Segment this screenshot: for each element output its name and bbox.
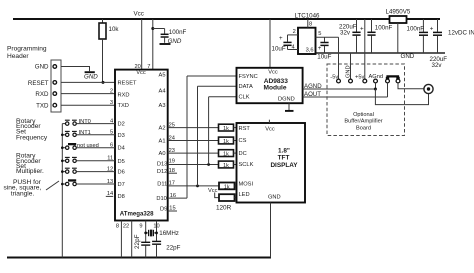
node: common junctions xyxy=(61,134,64,137)
svg-text:A4: A4 xyxy=(159,88,166,94)
svg-text:AGND: AGND xyxy=(304,83,322,90)
wire: -5v drop xyxy=(338,37,340,79)
svg-text:RST: RST xyxy=(239,126,251,132)
terminal GND xyxy=(349,79,353,83)
svg-text:32v: 32v xyxy=(432,62,443,69)
wire: AOUT riser to terminal A xyxy=(387,83,389,97)
svg-text:AGnd: AGnd xyxy=(369,74,384,80)
svg-text:3: 3 xyxy=(110,100,113,106)
wire: A0 to DC xyxy=(168,152,219,154)
node: reset junction xyxy=(102,81,105,84)
connector J2 output jack xyxy=(424,84,433,93)
svg-text:+5v: +5v xyxy=(355,74,364,80)
pin RXD xyxy=(53,92,57,96)
svg-text:TFT: TFT xyxy=(278,155,290,162)
switch SW6 push (D7) xyxy=(62,183,65,185)
svg-text:TXD: TXD xyxy=(36,103,49,110)
svg-text:11: 11 xyxy=(107,156,113,162)
svg-text:1k: 1k xyxy=(224,184,230,190)
svg-text:-5v: -5v xyxy=(330,75,338,81)
wire: pin2 xyxy=(288,34,299,36)
switch SW3 not used (D4) xyxy=(62,147,65,149)
svg-text:Buffer/Amplifier: Buffer/Amplifier xyxy=(344,119,382,125)
svg-text:D4: D4 xyxy=(118,146,125,152)
svg-text:3,6: 3,6 xyxy=(306,47,314,53)
svg-text:6: 6 xyxy=(110,143,113,149)
svg-text:INT1: INT1 xyxy=(79,130,91,136)
svg-text:DC: DC xyxy=(239,151,247,157)
svg-text:4: 4 xyxy=(110,118,113,124)
switch SW4 (D5) xyxy=(62,160,65,162)
svg-text:100nF: 100nF xyxy=(407,26,425,33)
svg-text:13: 13 xyxy=(107,179,113,185)
wire: AOUT xyxy=(303,96,388,98)
svg-text:4: 4 xyxy=(292,45,295,51)
wire: pin10 xyxy=(156,221,158,242)
wire: D13 to SCLK xyxy=(168,164,219,166)
svg-text:7: 7 xyxy=(147,64,150,70)
svg-text:2: 2 xyxy=(293,29,296,35)
svg-text:SCLK: SCLK xyxy=(239,162,254,168)
wire: A2 to RST xyxy=(168,127,219,129)
capacitor C7 100nF xyxy=(371,19,373,32)
node: CLK junction xyxy=(207,163,210,166)
wire: D10 to FSYNC riser xyxy=(168,197,187,199)
wire: DATA horizontal xyxy=(198,85,237,87)
svg-text:ATmega328: ATmega328 xyxy=(120,210,154,217)
power GND rail xyxy=(316,52,446,54)
svg-text:10: 10 xyxy=(153,223,159,229)
svg-text:A1: A1 xyxy=(159,139,166,145)
svg-text:12vDC IN: 12vDC IN xyxy=(448,30,474,37)
wire: AGnd to AGND net xyxy=(375,83,377,89)
svg-text:1k: 1k xyxy=(223,163,229,169)
svg-text:triangle.: triangle. xyxy=(11,190,35,197)
svg-text:CLK: CLK xyxy=(239,95,250,101)
svg-text:Vcc: Vcc xyxy=(136,70,146,76)
svg-text:100nF: 100nF xyxy=(375,25,393,32)
svg-text:GND: GND xyxy=(168,38,182,45)
pin TXD xyxy=(53,103,57,107)
wire: Vcc feed AD9833 xyxy=(269,19,271,68)
svg-text:RESET: RESET xyxy=(118,80,137,86)
wire: TXD xyxy=(61,104,115,106)
wire: D11 to MOSI xyxy=(168,185,219,187)
resistor R5 1k xyxy=(219,161,234,168)
svg-text:Multiplier.: Multiplier. xyxy=(16,168,44,175)
svg-text:AOUT: AOUT xyxy=(304,91,321,98)
svg-text:D13: D13 xyxy=(157,162,167,168)
svg-text:Module: Module xyxy=(263,85,286,92)
svg-text:RESET: RESET xyxy=(28,80,49,87)
svg-text:DATA: DATA xyxy=(239,84,254,90)
annotation line xyxy=(46,181,59,190)
svg-text:D2: D2 xyxy=(118,122,125,128)
svg-text:RXD: RXD xyxy=(35,91,49,98)
wire: TFT Vcc stub xyxy=(268,120,270,123)
svg-text:DGND: DGND xyxy=(278,96,295,102)
svg-text:LTC1046: LTC1046 xyxy=(295,13,321,20)
svg-text:D3: D3 xyxy=(118,133,125,139)
node: xtal pin10 xyxy=(155,232,158,235)
wire: AGND down to jack sleeve xyxy=(375,89,428,105)
resistor R7 120R xyxy=(219,194,235,201)
wire: A1 to CS xyxy=(168,140,219,142)
svg-text:+: + xyxy=(318,45,322,52)
svg-text:1k: 1k xyxy=(223,152,229,158)
svg-text:GND: GND xyxy=(84,73,98,80)
svg-text:Vcc: Vcc xyxy=(268,70,278,76)
svg-text:D9: D9 xyxy=(160,206,167,212)
svg-text:A3: A3 xyxy=(159,103,166,109)
resistor R4 1k xyxy=(219,150,234,157)
svg-text:12: 12 xyxy=(107,166,113,172)
svg-text:+: + xyxy=(360,26,364,33)
wire: +5v feed xyxy=(364,19,366,79)
wire: pin8 xyxy=(120,221,122,258)
svg-text:L4950V5: L4950V5 xyxy=(386,9,411,16)
svg-text:120R: 120R xyxy=(216,204,232,211)
svg-text:20: 20 xyxy=(134,64,140,70)
svg-text:Vcc: Vcc xyxy=(265,126,275,132)
svg-text:LED: LED xyxy=(239,192,250,198)
capacitor C4 10uF xyxy=(287,35,289,42)
switch SW2 INT1 (D3) xyxy=(62,134,65,136)
capacitor C1 100nF xyxy=(153,28,165,30)
svg-text:MOSI: MOSI xyxy=(239,182,254,188)
svg-text:Vcc: Vcc xyxy=(208,188,218,194)
svg-text:A0: A0 xyxy=(159,151,166,157)
node: DATA junction xyxy=(196,185,199,188)
jumper link xyxy=(388,76,399,79)
wire: RXD xyxy=(61,93,115,95)
capacitor C8 100nF xyxy=(422,19,424,32)
wire: RESET xyxy=(61,81,115,83)
svg-text:DISPLAY: DISPLAY xyxy=(270,162,298,169)
switch SW5 (D6) xyxy=(62,171,65,173)
connector J1 programming header xyxy=(51,60,61,112)
wire: CLK vertical xyxy=(208,97,210,165)
svg-text:8: 8 xyxy=(309,22,312,28)
wire: CLK horizontal xyxy=(209,96,237,98)
capacitor C3 22pF xyxy=(152,240,161,242)
MCU U1 ATmega328 xyxy=(115,70,168,221)
switch SW1 INT0 (D2) xyxy=(62,123,65,125)
capacitor C5 10uF xyxy=(324,37,326,42)
wire: pin4 xyxy=(288,49,299,51)
svg-text:8: 8 xyxy=(116,223,119,229)
svg-text:GND: GND xyxy=(401,53,415,60)
IC U4 LTC1046 xyxy=(298,28,316,54)
svg-text:D11: D11 xyxy=(157,181,167,187)
svg-text:10k: 10k xyxy=(109,26,120,33)
wire: switch common to ground xyxy=(61,124,63,258)
wire: pin5 xyxy=(316,36,339,38)
svg-text:Optional: Optional xyxy=(353,112,374,118)
svg-text:5: 5 xyxy=(318,31,321,37)
wire: header GND xyxy=(61,67,90,72)
ground symbol (DGND) xyxy=(288,103,290,110)
node: pin7 vcc junction xyxy=(151,27,154,30)
wire: Vcc pin20 xyxy=(141,19,143,70)
wire: gnd stub xyxy=(350,53,352,79)
svg-text:10uF: 10uF xyxy=(317,53,331,60)
display U3 1.8 TFT xyxy=(237,123,306,203)
ground symbol (C1) xyxy=(160,43,171,45)
svg-text:D10: D10 xyxy=(156,196,166,202)
svg-text:22pF: 22pF xyxy=(166,245,180,252)
svg-text:1k: 1k xyxy=(223,139,229,145)
svg-text:Programming: Programming xyxy=(7,46,47,53)
svg-text:D12: D12 xyxy=(157,169,167,175)
wire: DATA vertical xyxy=(197,86,199,186)
wire: terminal B to jack pin xyxy=(398,83,424,89)
node: xtal pin9 xyxy=(144,232,147,235)
svg-text:not used: not used xyxy=(77,143,99,149)
svg-text:32v: 32v xyxy=(340,30,351,37)
wire: FSYNC vertical xyxy=(186,76,188,198)
node: AGND junction xyxy=(374,88,377,91)
svg-text:2: 2 xyxy=(110,88,113,94)
svg-text:D7: D7 xyxy=(118,182,125,188)
svg-text:FSYNC: FSYNC xyxy=(239,74,258,80)
svg-text:+: + xyxy=(279,35,283,42)
svg-text:5: 5 xyxy=(110,130,113,136)
terminal out B xyxy=(396,79,400,83)
wire: pin9 xyxy=(145,221,147,243)
wire: AGND xyxy=(303,88,376,90)
svg-text:16MHz: 16MHz xyxy=(159,230,179,237)
svg-text:D6: D6 xyxy=(118,170,125,176)
Vcc rail (top) xyxy=(13,18,390,20)
terminal out A xyxy=(386,79,390,83)
crystal X1 16MHz xyxy=(146,232,149,234)
svg-text:100nF: 100nF xyxy=(169,29,187,36)
svg-text:A5: A5 xyxy=(159,73,166,79)
wire: regulator GND xyxy=(397,23,399,53)
svg-text:19: 19 xyxy=(169,158,175,164)
capacitor C6 220uF xyxy=(356,19,358,32)
capacitor C9 220uF xyxy=(437,19,439,32)
svg-text:22pF: 22pF xyxy=(134,234,141,249)
optional board dashed outline xyxy=(327,64,405,136)
terminal +5v xyxy=(363,79,367,83)
wire: Vcc pin7 xyxy=(152,19,154,70)
svg-text:1k: 1k xyxy=(223,126,229,132)
terminal AGnd xyxy=(374,79,378,83)
svg-text:GND: GND xyxy=(345,65,351,78)
resistor R1 10k xyxy=(102,19,104,23)
svg-text:+: + xyxy=(430,26,434,33)
svg-text:GND: GND xyxy=(268,194,281,200)
capacitor C2 22pF xyxy=(141,241,150,243)
svg-text:D8: D8 xyxy=(118,194,125,200)
svg-text:CS: CS xyxy=(239,138,247,144)
svg-text:D5: D5 xyxy=(118,159,125,165)
ground rail (bottom left) xyxy=(7,257,271,259)
ground symbol (header) xyxy=(85,71,95,73)
Vcc rail right of regulator xyxy=(407,18,441,20)
wire: pin8 xyxy=(307,19,309,28)
resistor R3 1k xyxy=(219,137,234,144)
svg-text:10uF: 10uF xyxy=(272,45,286,52)
svg-text:Board: Board xyxy=(356,126,371,132)
svg-text:GND: GND xyxy=(35,64,49,71)
resistor R2 1k xyxy=(219,124,234,131)
svg-text:INT0: INT0 xyxy=(79,119,91,125)
wire: Vcc to 120R xyxy=(215,193,219,198)
svg-text:Vcc: Vcc xyxy=(134,11,144,18)
module U2 AD9833 xyxy=(237,68,303,103)
svg-text:Header: Header xyxy=(7,53,29,60)
wire: TFT GND xyxy=(270,203,272,258)
pin GND xyxy=(53,65,57,69)
wire: FSYNC horizontal xyxy=(187,75,237,77)
svg-text:TXD: TXD xyxy=(118,103,129,109)
svg-text:RXD: RXD xyxy=(118,92,130,98)
resistor R6 1k xyxy=(219,183,235,190)
wire: pin22 xyxy=(131,221,133,258)
svg-text:A2: A2 xyxy=(159,126,166,132)
pin RESET xyxy=(53,81,57,85)
svg-text:Frequency: Frequency xyxy=(16,135,48,142)
svg-text:9: 9 xyxy=(139,223,142,229)
terminal -5v xyxy=(337,79,341,83)
svg-text:22: 22 xyxy=(123,223,129,229)
